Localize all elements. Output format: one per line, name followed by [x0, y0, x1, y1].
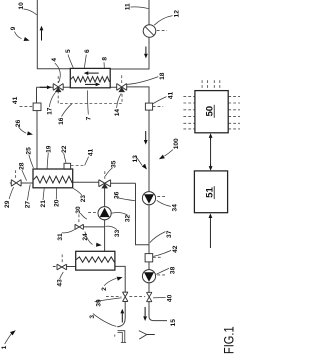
svg-text:FIG.1: FIG.1 — [220, 326, 236, 354]
svg-text:19: 19 — [46, 145, 53, 153]
svg-text:32: 32 — [125, 215, 132, 223]
svg-text:22: 22 — [61, 145, 68, 153]
svg-text:41: 41 — [12, 96, 19, 104]
svg-text:40: 40 — [166, 294, 173, 302]
svg-text:27: 27 — [24, 201, 31, 209]
svg-text:4: 4 — [51, 58, 58, 62]
svg-text:13: 13 — [132, 155, 139, 163]
svg-text:14: 14 — [114, 109, 121, 117]
svg-text:41: 41 — [167, 92, 174, 100]
svg-text:21: 21 — [40, 200, 47, 208]
svg-text:50: 50 — [204, 106, 215, 117]
svg-text:18: 18 — [159, 72, 166, 80]
svg-text:7: 7 — [86, 116, 93, 120]
svg-text:17: 17 — [46, 107, 53, 115]
svg-text:8: 8 — [101, 57, 108, 61]
svg-text:6: 6 — [84, 49, 91, 53]
svg-text:30: 30 — [75, 206, 82, 214]
svg-text:29: 29 — [4, 200, 11, 208]
svg-text:26: 26 — [15, 119, 22, 127]
svg-text:35: 35 — [111, 160, 118, 168]
svg-text:37: 37 — [166, 230, 173, 238]
svg-text:11: 11 — [124, 3, 131, 10]
svg-text:28: 28 — [19, 162, 26, 170]
svg-text:1: 1 — [1, 345, 8, 349]
svg-text:43: 43 — [56, 279, 63, 287]
svg-text:33: 33 — [114, 229, 121, 237]
svg-text:100: 100 — [173, 138, 180, 149]
svg-text:16: 16 — [58, 117, 65, 125]
svg-text:12: 12 — [173, 10, 180, 18]
svg-text:10: 10 — [18, 2, 25, 10]
svg-text:3: 3 — [89, 315, 96, 319]
svg-text:23: 23 — [80, 195, 87, 203]
svg-text:42: 42 — [172, 245, 179, 253]
svg-text:41: 41 — [87, 149, 94, 157]
svg-text:38: 38 — [169, 266, 176, 274]
svg-text:25: 25 — [26, 147, 33, 155]
svg-text:31: 31 — [57, 233, 64, 241]
svg-text:34: 34 — [171, 204, 178, 212]
svg-text:5: 5 — [65, 49, 72, 53]
svg-text:24: 24 — [82, 233, 89, 241]
svg-text:15: 15 — [170, 319, 177, 327]
svg-text:39: 39 — [96, 299, 103, 307]
svg-text:20: 20 — [54, 199, 61, 207]
svg-text:36: 36 — [113, 191, 120, 199]
svg-text:51: 51 — [204, 187, 215, 198]
svg-text:9: 9 — [10, 26, 17, 30]
svg-text:2: 2 — [101, 287, 108, 291]
